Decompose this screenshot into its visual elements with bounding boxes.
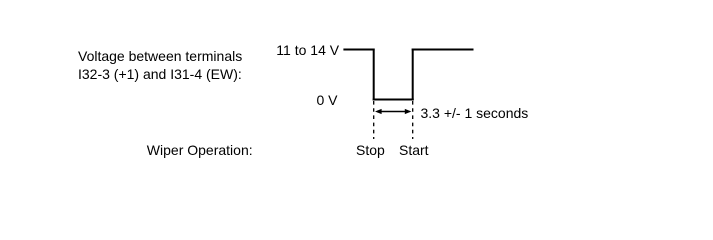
caption: voltage between terminals I32-3 (+1) and I31-4 (EW) <box>78 47 242 83</box>
level label: 0 V <box>317 93 338 107</box>
wire: rising edge at Start <box>412 49 414 101</box>
wire: low-level (0 V) segment <box>373 99 414 101</box>
node label: Start <box>399 143 429 157</box>
dimension arrow: 3.3 +/- 1 seconds interval <box>375 109 411 114</box>
level label: 11 to 14 V <box>276 43 339 57</box>
caption: wiper operation <box>147 143 253 157</box>
wire: high-level (11 to 14 V) segment before falling edge <box>343 49 374 51</box>
node label: Stop <box>356 143 385 157</box>
dashed extension line at Start <box>412 101 414 139</box>
wire: falling edge at Stop <box>373 49 375 101</box>
wire: high-level (11 to 14 V) segment after rising edge <box>412 49 474 51</box>
dashed extension line at Stop <box>373 101 375 139</box>
value label: 3.3 +/- 1 seconds <box>421 106 529 120</box>
